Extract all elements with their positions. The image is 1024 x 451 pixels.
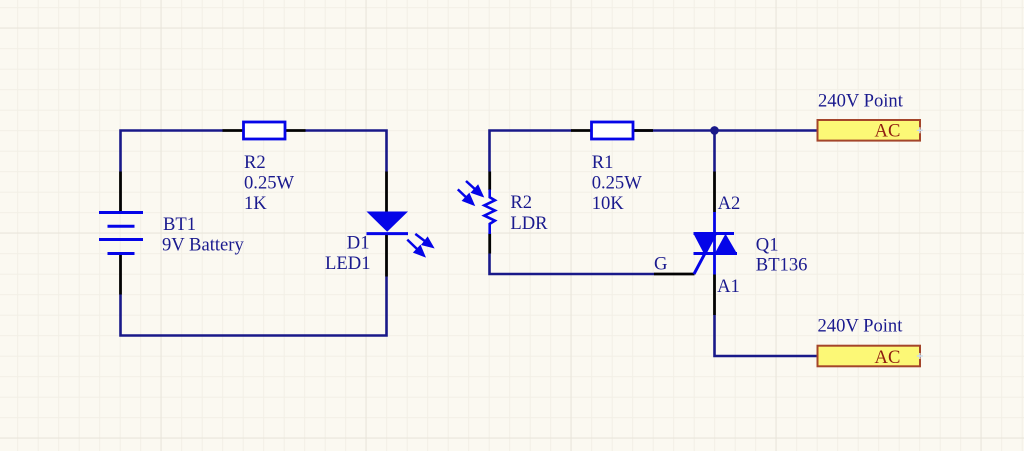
LED D1 triangle: [367, 212, 409, 232]
triac Q1 labels: [756, 235, 808, 276]
wire LDR top to R1: [490, 131, 572, 172]
port AC top: [818, 120, 923, 142]
wire junction to triac A2: [713, 131, 716, 172]
resistor R1 body: [592, 122, 634, 139]
svg-text:A2: A2: [718, 193, 741, 214]
wire R1 to port AC top: [633, 129, 818, 132]
LED D1 pin top: [385, 172, 388, 213]
svg-text:LDR: LDR: [510, 213, 548, 234]
wire triac A1 to port AC bottom: [715, 315, 818, 356]
svg-text:BT1: BT1: [163, 214, 196, 235]
battery BT1 pin bottom: [119, 254, 122, 295]
LDR R2 light arrow 2: [466, 181, 482, 195]
svg-text:D1: D1: [347, 233, 370, 254]
LDR R2 labels: [510, 192, 548, 234]
svg-text:R2: R2: [244, 152, 266, 173]
resistor R2 value labels: [244, 152, 295, 214]
svg-text:9V Battery: 9V Battery: [162, 235, 244, 256]
LED D1 labels: [325, 233, 370, 275]
battery BT1 plates: [99, 213, 143, 254]
wire top-left horizontal: [121, 131, 223, 172]
LDR R2 pin bottom: [488, 234, 491, 254]
LDR R2 light arrow 1: [458, 189, 473, 204]
battery BT1 pin top: [119, 172, 122, 213]
LED D1 cathode bar: [367, 232, 409, 235]
resistor R1 pin 2: [633, 129, 654, 132]
wire from R2 to LED top: [305, 131, 386, 172]
resistor R1 pin 1: [571, 129, 592, 132]
port AC bottom: [818, 346, 923, 368]
wire bottom loop battery to LED: [121, 277, 387, 336]
LED D1 emission arrow 2: [407, 240, 423, 256]
triac Q1 body: [694, 212, 738, 275]
resistor R2 body: [244, 122, 286, 139]
svg-text:10K: 10K: [592, 193, 625, 214]
triac Q1 pin A2: [713, 172, 716, 213]
junction dot: [710, 126, 719, 135]
LDR R2 pin top: [488, 172, 491, 191]
svg-text:BT136: BT136: [756, 255, 808, 276]
svg-text:240V Point: 240V Point: [818, 316, 904, 337]
resistor R1 value labels: [592, 152, 643, 214]
svg-text:240V Point: 240V Point: [818, 90, 904, 111]
svg-text:AC: AC: [875, 121, 901, 142]
svg-text:R1: R1: [592, 152, 614, 173]
svg-text:0.25W: 0.25W: [592, 172, 643, 193]
resistor R2 pin 1: [223, 129, 244, 132]
triac Q1 pin A1: [713, 275, 716, 316]
svg-text:LED1: LED1: [325, 253, 370, 274]
battery BT1 labels: [162, 214, 244, 256]
svg-text:G: G: [654, 253, 667, 274]
svg-text:Q1: Q1: [756, 235, 779, 256]
wire LDR bottom to gate: [490, 254, 655, 275]
triac Q1 pin G: [654, 273, 695, 276]
svg-text:0.25W: 0.25W: [244, 172, 295, 193]
LED D1 pin bottom: [385, 235, 388, 277]
svg-text:1K: 1K: [244, 193, 267, 214]
LED D1 emission arrow 1: [415, 234, 432, 247]
svg-text:R2: R2: [510, 192, 532, 213]
LDR R2 zigzag: [484, 190, 495, 235]
svg-text:A1: A1: [717, 276, 740, 297]
svg-text:AC: AC: [875, 347, 901, 368]
resistor R2 pin 2: [285, 129, 306, 132]
